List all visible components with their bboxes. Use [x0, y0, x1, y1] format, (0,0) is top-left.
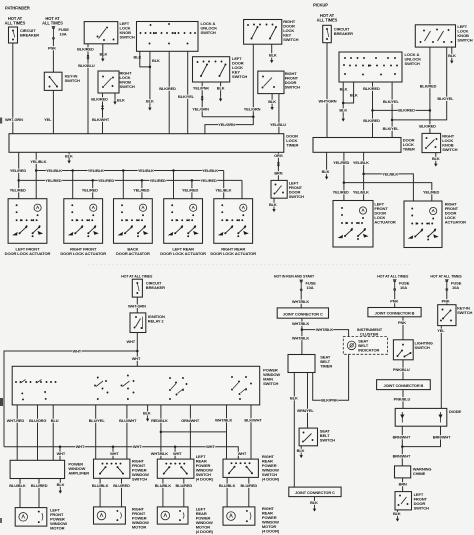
fuse 10A (key-in) — [445, 280, 449, 291]
junction — [112, 446, 115, 449]
wire WHT to amplifier — [59, 447, 61, 461]
main switch contacts cluster 2 — [94, 375, 134, 400]
wire BLK jog from lock&unlock switch — [140, 51, 150, 67]
right lock knob switch (Pathfinder) — [98, 71, 119, 93]
svg-text:BLU/WHT: BLU/WHT — [119, 418, 137, 423]
left lock knob switch (Pickup) — [415, 25, 455, 47]
right front door lock actuator (Pickup) — [404, 201, 442, 248]
junction — [343, 181, 346, 184]
wire BLU/RED RF switch to motor — [121, 478, 123, 507]
joint connector B — [368, 308, 421, 317]
wire BLK door switch — [273, 198, 275, 206]
svg-text:ACTUATOR: ACTUATOR — [374, 220, 395, 225]
svg-text:BLU/BLK: BLU/BLK — [219, 483, 236, 488]
svg-text:YEL/BLK: YEL/BLK — [46, 168, 62, 173]
wire BLK amplifier to ground — [59, 479, 61, 489]
main switch contacts cluster 1 — [15, 381, 56, 383]
svg-text:BLU/ORG: BLU/ORG — [29, 418, 46, 423]
svg-text:YEL/RED: YEL/RED — [10, 188, 26, 193]
svg-text:MOTOR: MOTOR — [132, 524, 147, 529]
wire BRN/WHT diode left to junction — [401, 426, 403, 446]
svg-text:BREAKER: BREAKER — [20, 32, 39, 37]
svg-text:YEL/RED: YEL/RED — [98, 178, 114, 183]
wire YEL/BLK rail end to RR actuator — [223, 171, 225, 199]
wire to back actuator — [141, 180, 143, 198]
YEL/RED rail — [19, 179, 242, 181]
power window main switch — [12, 366, 260, 405]
YEL/BLK rail — [36, 170, 224, 172]
svg-text:BLK: BLK — [65, 153, 73, 158]
wire PNK fuse to joint connector B — [394, 291, 396, 308]
svg-text:BLK/RED: BLK/RED — [420, 84, 437, 89]
svg-text:WHT/BLK: WHT/BLK — [215, 418, 233, 423]
svg-text:YEL/RED: YEL/RED — [423, 190, 439, 195]
svg-text:SWITCH: SWITCH — [289, 194, 304, 199]
svg-text:BLK: BLK — [152, 58, 160, 63]
back door lock actuator (Pathfinder) — [114, 199, 153, 244]
svg-text:BLU/BLK: BLU/BLK — [9, 483, 26, 488]
wire BLU/BLK RF switch to motor — [99, 478, 101, 507]
connector on ORG wire — [277, 162, 280, 168]
svg-text:YEL/RED: YEL/RED — [82, 188, 98, 193]
svg-text:BRN/WHT: BRN/WHT — [393, 454, 411, 459]
svg-text:SWITCH: SWITCH — [285, 85, 300, 90]
door lock timer (Pathfinder) — [9, 134, 284, 153]
svg-text:YEL/BLK: YEL/BLK — [215, 188, 231, 193]
svg-text:RED/BLK: RED/BLK — [151, 418, 168, 423]
svg-text:TIMER: TIMER — [320, 364, 332, 369]
connector on right knob wire — [101, 105, 104, 111]
svg-text:TIMER: TIMER — [403, 146, 415, 151]
svg-text:PICKUP: PICKUP — [313, 2, 328, 7]
junction — [172, 169, 175, 172]
ground left knob (Pickup) — [450, 58, 453, 64]
lock & unlock switch (Pickup) — [339, 52, 402, 82]
wire BLU/ORG to amplifier — [37, 405, 39, 460]
ground right knob switch — [113, 99, 116, 105]
svg-text:WHT/GRN: WHT/GRN — [319, 98, 337, 103]
circuit breaker CB1 — [9, 27, 18, 43]
diode symbol right — [440, 412, 442, 423]
svg-text:DOOR LOCK ACTUATOR: DOOR LOCK ACTUATOR — [160, 251, 206, 256]
circuit breaker CB3 — [132, 279, 142, 297]
svg-text:BLK: BLK — [100, 51, 108, 56]
ground lock&unlock (Pickup) — [342, 116, 345, 122]
ground lock&unlock switch — [148, 105, 151, 111]
wire BLK/RED-BLK/BLU left knob to timer — [87, 44, 89, 134]
svg-text:10A: 10A — [307, 285, 314, 290]
wire WHT/BLK to RR switch — [226, 405, 228, 459]
svg-text:(4 DOOR): (4 DOOR) — [196, 477, 214, 482]
wire to LR actuator — [191, 180, 193, 198]
wire YEL/BLK pickup timer to LF actuator — [363, 152, 365, 200]
junction — [191, 179, 194, 182]
svg-text:SWITCH: SWITCH — [457, 310, 472, 315]
wire BLK/YEL lock&unlock to timer — [187, 51, 189, 133]
svg-text:AMPLIFIER: AMPLIFIER — [68, 470, 89, 475]
WHT/BLK jog rail — [161, 431, 227, 433]
junction — [401, 445, 404, 448]
svg-text:YEL/BLK: YEL/BLK — [30, 159, 46, 164]
svg-text:YEL/BLK: YEL/BLK — [382, 171, 398, 176]
svg-text:YEL/BLK: YEL/BLK — [353, 190, 369, 195]
ground door switch — [270, 105, 273, 111]
junction — [71, 169, 74, 172]
svg-text:RELAY 2: RELAY 2 — [148, 319, 165, 324]
wire YEL/GRN down-left into timer — [205, 117, 253, 134]
wire BLU/YEL to RF switch — [95, 405, 97, 459]
svg-text:SWITCH: SWITCH — [320, 437, 335, 442]
ground timer BLK — [67, 158, 70, 164]
svg-text:SWITCH: SWITCH — [201, 30, 216, 35]
svg-text:WHT/BLK: WHT/BLK — [292, 299, 310, 304]
junction — [141, 179, 144, 182]
svg-text:DIODE: DIODE — [449, 409, 462, 414]
lock & unlock switch (Pathfinder) — [137, 22, 199, 52]
svg-text:WHT: WHT — [126, 339, 135, 344]
ground joint connector C — [313, 506, 316, 512]
wire BLK jog (Pickup) — [343, 82, 353, 103]
svg-text:BLK/RED: BLK/RED — [398, 108, 415, 113]
wire BLK/YEL lock&unlock to timer (Pickup) — [391, 82, 393, 138]
svg-text:BREAKER: BREAKER — [334, 31, 353, 36]
wire BRN/WHT diode right to junction — [402, 426, 440, 446]
junction — [342, 102, 345, 105]
wire BLU/RED RR switch to motor — [248, 477, 250, 507]
junction — [122, 169, 125, 172]
svg-text:SWITCH: SWITCH — [65, 78, 80, 83]
wire WHT/BLK branch to instrument cluster — [302, 330, 349, 337]
svg-text:YEL/RED: YEL/RED — [333, 190, 349, 195]
svg-text:ACTUATOR: ACTUATOR — [445, 220, 466, 225]
ground left knob switch — [101, 56, 104, 62]
fuse 10A (Pathfinder) — [52, 27, 56, 40]
svg-text:WHT: WHT — [173, 451, 182, 456]
svg-text:YEL/BLK: YEL/BLK — [88, 168, 104, 173]
svg-text:SWITCH: SWITCH — [283, 37, 298, 42]
wire BLU/BLK LR switch to motor — [162, 478, 164, 507]
svg-text:BLU/BLK: BLU/BLK — [155, 483, 172, 488]
wire WHT/GRN CB2 to pickup timer — [326, 43, 328, 138]
left front door switch (Pathfinder) — [271, 180, 287, 198]
seat belt timer — [288, 355, 315, 373]
svg-text:WHT: WHT — [238, 451, 247, 456]
wire WHT relay to main switch — [136, 333, 138, 367]
svg-text:TIMER: TIMER — [286, 142, 298, 147]
svg-text:ALL TIMES: ALL TIMES — [5, 21, 26, 26]
svg-text:BLK: BLK — [322, 169, 330, 174]
wire WHT horizontal + left drop — [4, 351, 137, 447]
svg-text:BLK: BLK — [350, 92, 358, 97]
svg-text:YEL/GRN: YEL/GRN — [244, 106, 261, 111]
wire BLU to amplifier — [52, 405, 54, 460]
wire BLK/RED left knob (Pickup) — [429, 47, 431, 133]
wire BLU/RED LR switch to motor — [183, 478, 185, 507]
wire YEL/BLU door switch to timer — [278, 94, 280, 134]
connector on key switch wire — [201, 96, 204, 102]
wire WHT/BLK joint connector C to seat belt timer — [301, 318, 303, 354]
wire BRN chime to door switch — [402, 478, 404, 492]
wire PNK/BLU joint connector B to diode — [402, 390, 404, 409]
left front door switch (chime) — [395, 492, 412, 510]
wire YEL/GRN right key switch to junction — [252, 44, 254, 117]
ground seat belt switch — [300, 453, 303, 459]
ground key switch — [219, 96, 222, 102]
svg-text:PNK: PNK — [390, 299, 398, 304]
svg-text:PNK: PNK — [442, 299, 450, 304]
seat belt switch — [299, 428, 317, 446]
right front door lock actuator (Pathfinder) — [64, 199, 103, 244]
left rear power window switch — [157, 459, 194, 478]
svg-text:WHT-GRN: WHT-GRN — [5, 117, 23, 122]
wire YEL key-in switch to diode — [440, 326, 442, 409]
WHT distribution rail — [4, 447, 238, 459]
wire BRN/YEL seat belt timer to switch — [307, 373, 309, 429]
svg-text:SWITCH: SWITCH — [120, 84, 135, 89]
svg-text:BLK: BLK — [146, 98, 154, 103]
svg-text:BLK/PNK: BLK/PNK — [321, 398, 338, 403]
svg-text:SWITCH: SWITCH — [263, 381, 278, 386]
svg-text:MOTOR: MOTOR — [50, 526, 65, 531]
svg-text:PNK/BLU: PNK/BLU — [394, 397, 411, 402]
wire YEL/RED timer to LF actuator — [18, 152, 20, 198]
wire BLK door switch to ground — [271, 94, 273, 105]
junction — [136, 350, 139, 353]
YEL/BLK rail to RF actuator (Pickup) — [364, 174, 414, 201]
svg-text:DOOR LOCK ACTUATOR: DOOR LOCK ACTUATOR — [60, 251, 106, 256]
svg-text:BLK/BLU: BLK/BLU — [78, 63, 95, 68]
svg-text:WHT: WHT — [132, 356, 141, 361]
scan artifact left edge — [0, 118, 2, 124]
svg-text:ALL TIMES: ALL TIMES — [42, 21, 63, 26]
wire YEL key-in switch to timer — [52, 90, 54, 133]
right front power window motor — [94, 507, 126, 524]
wire PNK/BLU lighting switch to joint connector B — [402, 360, 404, 380]
svg-text:BLU/RED: BLU/RED — [113, 483, 130, 488]
svg-text:HOT AT ALL TIMES: HOT AT ALL TIMES — [121, 274, 153, 278]
svg-text:BLK: BLK — [57, 482, 65, 487]
svg-text:(4 DOOR): (4 DOOR) — [262, 477, 280, 482]
wire WHT/BLK fuse to joint connector C — [300, 291, 302, 308]
svg-text:SWITCH: SWITCH — [232, 74, 247, 79]
svg-text:YEL/RED: YEL/RED — [133, 188, 149, 193]
wire BLK main switch to ground — [147, 405, 149, 416]
junction — [59, 446, 62, 449]
right rear door lock actuator (Pathfinder) — [214, 199, 253, 244]
svg-text:BLK/RED: BLK/RED — [419, 124, 436, 129]
wire BLK to ground (Pickup) — [342, 82, 344, 116]
joint connector B (lower) — [377, 380, 431, 390]
right front power window switch — [94, 459, 130, 478]
wire BLK right key switch — [271, 44, 273, 55]
svg-text:10A: 10A — [452, 285, 459, 290]
wire YEL/GRN horizontal to junction — [202, 116, 253, 118]
wire PNK fuse to key-in switch — [52, 40, 54, 73]
seat belt indicator lamp — [347, 341, 356, 350]
svg-text:WHT: WHT — [57, 451, 66, 456]
svg-text:YEL/RED: YEL/RED — [333, 160, 349, 165]
wire to RF actuator — [92, 180, 94, 198]
svg-text:SWITCH: SWITCH — [405, 61, 420, 66]
diode symbol left — [401, 412, 403, 423]
svg-text:WHT: WHT — [206, 444, 215, 449]
svg-text:BLK: BLK — [143, 411, 151, 416]
fuse 10A (seat belt) — [299, 280, 303, 291]
right lock knob switch (Pickup) — [422, 133, 441, 152]
svg-text:WHT: WHT — [73, 348, 82, 353]
svg-text:CHIME: CHIME — [413, 471, 426, 476]
svg-text:YEL/GRN: YEL/GRN — [218, 122, 235, 127]
svg-text:WHT: WHT — [110, 451, 119, 456]
wire BLK timer to ground — [68, 152, 70, 158]
svg-text:DOOR LOCK ACTUATOR: DOOR LOCK ACTUATOR — [210, 251, 256, 256]
svg-text:BLK/YEL: BLK/YEL — [383, 126, 400, 131]
YEL/RED rail to RF actuator (Pickup) — [344, 183, 432, 201]
wire YEL/BLK timer to LF actuator — [35, 152, 37, 198]
svg-text:BLK/WHT: BLK/WHT — [92, 117, 110, 122]
circuit breaker CB2 (Pickup) — [323, 25, 332, 42]
svg-text:ALL TIMES: ALL TIMES — [317, 18, 338, 23]
ground door switch — [272, 207, 275, 213]
junction — [371, 109, 374, 112]
svg-text:SWITCH: SWITCH — [457, 38, 472, 43]
warning chime — [395, 466, 411, 478]
svg-text:DOOR ACTUATOR: DOOR ACTUATOR — [116, 251, 150, 256]
svg-text:BLK: BLK — [310, 500, 318, 505]
svg-text:BLK/YEL: BLK/YEL — [383, 99, 400, 104]
svg-text:WHT-GRN: WHT-GRN — [128, 304, 146, 309]
wire WHT-GRN from CB1 to door lock timer — [12, 43, 14, 134]
junction — [35, 169, 38, 172]
wire BLK/RED lock&unlock to timer (Pickup) — [372, 82, 374, 138]
svg-text:BLU/BLK: BLU/BLK — [92, 483, 109, 488]
svg-text:YEL: YEL — [44, 117, 52, 122]
svg-text:WHT: WHT — [133, 444, 142, 449]
svg-text:BLK/RED: BLK/RED — [77, 46, 94, 51]
svg-text:BLU/YEL: BLU/YEL — [89, 418, 106, 423]
ignition relay 2 — [130, 313, 146, 333]
svg-text:SWITCH: SWITCH — [415, 345, 430, 350]
wire YEL/RED rail end to RR actuator — [241, 180, 243, 198]
wire YEL/PNK-YEL/GRN from key switch — [201, 82, 203, 117]
scan artifact left edge 2 — [0, 398, 3, 406]
svg-text:YEL/RED: YEL/RED — [182, 188, 198, 193]
svg-text:WHT/BLK: WHT/BLK — [316, 327, 334, 332]
svg-text:HOT IN RUN AND START: HOT IN RUN AND START — [274, 274, 315, 278]
wire WHT to LR switch — [174, 447, 176, 459]
svg-text:YEL/GRN: YEL/GRN — [192, 106, 209, 111]
wire BLK/RED-BLK/WHT right knob to timer — [102, 93, 104, 134]
connector on left knob wire — [86, 55, 89, 60]
right rear power window motor — [223, 507, 255, 525]
svg-text:10A: 10A — [60, 31, 67, 36]
svg-text:WHT/BLK: WHT/BLK — [151, 451, 169, 456]
svg-text:BLU/RED: BLU/RED — [176, 483, 193, 488]
wire BLU/BLK amplifier to LF motor — [19, 479, 21, 508]
left rear door lock actuator (Pathfinder) — [164, 199, 203, 244]
svg-text:BRN/WHT: BRN/WHT — [433, 435, 451, 440]
wire WHT-GRN CB3 to relay — [136, 297, 138, 313]
wire BLK door switch to ground — [397, 510, 399, 516]
wire BLK/PNK timer to instrument cluster — [313, 354, 349, 400]
svg-text:BLK: BLK — [269, 202, 277, 207]
main switch contacts cluster 4 — [231, 376, 252, 400]
left lock knob switch (Pathfinder) — [84, 22, 118, 44]
junction — [429, 109, 432, 112]
svg-text:BLK: BLK — [217, 86, 225, 91]
svg-text:BLK/YEL: BLK/YEL — [437, 96, 454, 101]
ground pickup timer — [325, 174, 328, 180]
svg-text:BLK: BLK — [432, 156, 440, 161]
ground amplifier — [59, 488, 62, 494]
wire WHT-RED to amplifier — [16, 405, 18, 460]
svg-text:YEL/BLK: YEL/BLK — [353, 160, 369, 165]
svg-text:BLK/YEL: BLK/YEL — [178, 94, 195, 99]
wire BLU/BLK RR switch to motor — [226, 477, 228, 507]
svg-text:PATHFINDER: PATHFINDER — [5, 6, 30, 11]
svg-text:PNK/BLU: PNK/BLU — [393, 367, 410, 372]
svg-text:BLU/RED: BLU/RED — [241, 483, 258, 488]
junction — [17, 179, 20, 182]
right door lock key switch (Pathfinder) — [244, 20, 282, 45]
wire WHT to RF switch — [112, 447, 114, 459]
ground main switch — [146, 416, 149, 422]
wire PNK joint connector B to lighting switch — [402, 317, 404, 340]
svg-text:INDICATOR: INDICATOR — [358, 347, 379, 352]
fuse 10A (lighting) — [393, 280, 397, 291]
svg-text:BLK: BLK — [269, 53, 277, 58]
wire to back actuator — [122, 171, 124, 199]
wire BLK pickup timer to ground — [326, 152, 328, 174]
svg-text:YEL: YEL — [437, 328, 445, 333]
svg-text:YEL/BLU: YEL/BLU — [270, 122, 286, 127]
junction — [391, 119, 394, 122]
key-in switch — [438, 305, 456, 326]
svg-text:GRN/WHT: GRN/WHT — [181, 418, 200, 423]
wire YEL/RED pickup timer to LF actuator — [343, 152, 345, 200]
svg-text:BLK/RED: BLK/RED — [363, 118, 380, 123]
wire BLK joint connector C — [314, 497, 316, 506]
wire BLK/YEL left knob (Pickup) — [392, 47, 447, 120]
svg-text:BLK/RED: BLK/RED — [363, 86, 380, 91]
wire PNK fuse to key-in switch — [446, 291, 448, 305]
door lock timer (Pickup) — [313, 138, 401, 153]
svg-text:BLK: BLK — [117, 98, 125, 103]
left front power window motor — [15, 508, 47, 526]
svg-text:HOT AT ALL TIMES: HOT AT ALL TIMES — [430, 274, 462, 278]
svg-text:PNK: PNK — [48, 45, 56, 50]
wire GRN/WHT to LR switch — [189, 405, 191, 459]
svg-text:BLU/RED: BLU/RED — [31, 483, 48, 488]
ground door switch (chime) — [396, 516, 399, 522]
svg-text:JOINT CONNECTOR C: JOINT CONNECTOR C — [295, 490, 335, 495]
svg-text:BLK: BLK — [393, 511, 401, 516]
svg-text:YEL/PNK: YEL/PNK — [193, 86, 209, 91]
svg-text:SWITCH: SWITCH — [120, 34, 135, 39]
svg-text:CLUSTER: CLUSTER — [360, 331, 378, 336]
junction — [149, 66, 152, 69]
svg-text:BLK: BLK — [268, 99, 276, 104]
svg-text:BLK: BLK — [448, 53, 456, 58]
svg-text:JOINT CONNECTOR B: JOINT CONNECTOR B — [375, 310, 415, 315]
wire BLU/WHT to RF switch — [126, 405, 128, 459]
junction — [301, 328, 304, 331]
lighting switch — [393, 340, 413, 360]
svg-text:YEL/BLK: YEL/BLK — [202, 168, 218, 173]
svg-text:ORG: ORG — [274, 153, 283, 158]
wire BLK/WHT to RR switch — [250, 405, 252, 459]
svg-text:BLK/WHT: BLK/WHT — [244, 418, 262, 423]
